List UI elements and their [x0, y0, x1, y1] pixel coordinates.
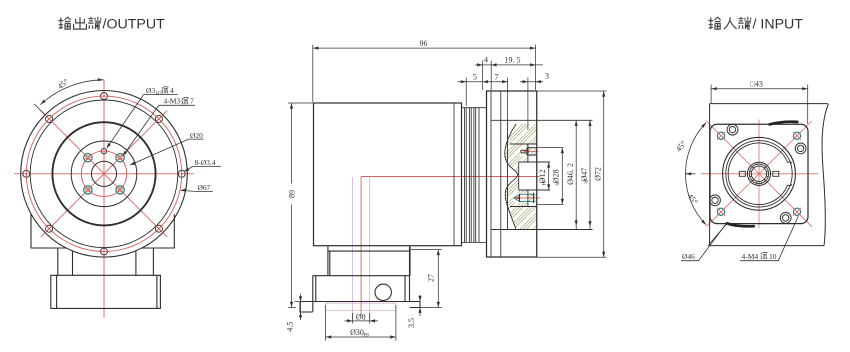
svg-text:89: 89: [287, 190, 296, 198]
svg-text:Ø67: Ø67: [198, 183, 211, 192]
svg-text:/ INPUT: / INPUT: [753, 17, 804, 33]
svg-text:Ø30: Ø30: [350, 328, 364, 337]
svg-text:45°: 45°: [56, 77, 70, 91]
svg-text:Ø72: Ø72: [594, 167, 603, 181]
svg-text:4-M4: 4-M4: [742, 252, 759, 261]
svg-text:7: 7: [495, 72, 499, 81]
svg-text:H7: H7: [156, 92, 163, 97]
svg-text:Ø20: Ø20: [190, 131, 203, 140]
svg-text:5: 5: [473, 72, 477, 81]
svg-text:3.5: 3.5: [407, 318, 416, 328]
svg-text:Ø3: Ø3: [146, 86, 155, 95]
svg-text:□43: □43: [750, 80, 763, 89]
svg-text:4.5: 4.5: [285, 322, 294, 332]
svg-text:h7: h7: [584, 178, 589, 184]
svg-text:45°: 45°: [685, 192, 699, 206]
svg-text:H7: H7: [543, 179, 548, 186]
svg-text:7: 7: [190, 97, 194, 106]
svg-text:/OUTPUT: /OUTPUT: [103, 17, 166, 33]
svg-text:4: 4: [484, 55, 488, 64]
svg-text:96: 96: [420, 39, 428, 48]
svg-text:45°: 45°: [674, 139, 688, 153]
svg-text:27: 27: [427, 274, 436, 282]
svg-text:Ø46. 2: Ø46. 2: [566, 163, 575, 185]
svg-text:Ø8: Ø8: [356, 313, 366, 322]
svg-text:10: 10: [769, 252, 777, 261]
svg-text:4-M3: 4-M3: [164, 97, 181, 106]
svg-text:4: 4: [170, 86, 174, 95]
svg-text:3: 3: [545, 72, 549, 81]
svg-text:Ø46: Ø46: [682, 252, 695, 261]
svg-text:F8: F8: [364, 333, 370, 338]
svg-text:h7: h7: [556, 180, 561, 186]
svg-text:8-Ø3.4: 8-Ø3.4: [195, 158, 216, 167]
svg-text:19. 5: 19. 5: [505, 55, 521, 64]
